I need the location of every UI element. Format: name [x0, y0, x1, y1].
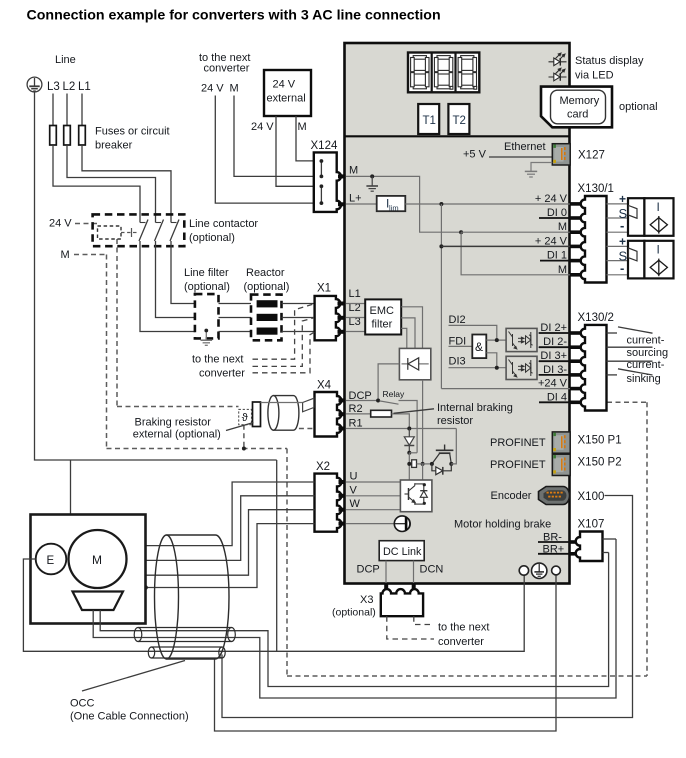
- wire dashed enclosure right drop: [286, 449, 288, 677]
- EMC filter box: [365, 299, 401, 334]
- X127 ethernet jack: [552, 144, 570, 165]
- X124 jumper pin 2: [320, 184, 324, 205]
- braking chopper IGBT: [432, 445, 454, 464]
- svg-text:R1: R1: [349, 418, 363, 430]
- contactor switch blade phase 1: [170, 220, 179, 242]
- svg-text:M: M: [61, 249, 70, 261]
- DC Link box: [379, 541, 424, 561]
- wire M external to X124: [296, 116, 314, 161]
- X150 P1 jack: [552, 432, 570, 453]
- pointer internal braking resistor: [394, 409, 435, 414]
- wire 24V external to X124: [276, 116, 314, 186]
- wire X107 to brake B: [603, 552, 609, 554]
- svg-text:Line: Line: [55, 54, 76, 66]
- svg-text:+: +: [619, 235, 626, 249]
- svg-text:V: V: [350, 484, 358, 496]
- svg-text:X2: X2: [316, 461, 330, 473]
- wire +24V rail drop: [440, 204, 442, 389]
- svg-text:X150 P1: X150 P1: [578, 435, 622, 447]
- braking enclosure dashed top: [117, 406, 239, 408]
- X3 pin stub DCP: [384, 585, 388, 595]
- wire DCP bus down: [408, 453, 410, 480]
- wire filter to reactor row2: [219, 317, 252, 319]
- wire shield row: [346, 523, 394, 525]
- svg-text:I: I: [657, 200, 660, 214]
- wire encoder E loop: [23, 559, 524, 651]
- svg-text:M: M: [298, 121, 307, 133]
- converter main block: [345, 43, 570, 584]
- wire X2 V to motor: [127, 496, 315, 561]
- wire X2 U to motor: [124, 482, 315, 546]
- svg-text:OCC: OCC: [70, 698, 95, 710]
- wire zener to DCP bus: [409, 452, 417, 454]
- braking resistor body cylinder: [268, 396, 299, 431]
- seven segment display assembly: [408, 53, 479, 93]
- svg-text:W: W: [350, 498, 361, 510]
- wire phase L3 contactor to filter: [140, 241, 195, 332]
- wire DC link DCP: [385, 561, 387, 583]
- X107 pin stubs: [571, 540, 577, 544]
- svg-text:X3: X3: [360, 594, 373, 606]
- svg-text:via LED: via LED: [575, 70, 614, 82]
- wire resistor to R1 rail: [392, 414, 410, 429]
- current limiter Ilim: [377, 196, 406, 211]
- svg-text:(optional): (optional): [244, 281, 290, 293]
- wire dashed M drop to braking enclosure: [106, 255, 108, 449]
- wire 24V to next converter: [215, 96, 313, 204]
- svg-text:R2: R2: [349, 403, 363, 415]
- junction DI2/AND: [495, 338, 499, 342]
- svg-text:X124: X124: [311, 140, 338, 152]
- wire brake lead B: [93, 539, 616, 698]
- svg-text:Memory: Memory: [560, 95, 600, 107]
- junction DI3/AND: [495, 366, 499, 370]
- X4 cable lug flag: [303, 398, 314, 412]
- X124 jumper pin 1: [320, 159, 324, 178]
- shield clamp circle 2: [552, 566, 561, 575]
- relay contact blade: [380, 401, 399, 404]
- X4 pin stub R2: [339, 412, 346, 416]
- DC link capacitor: [412, 460, 417, 468]
- contactor switch blade phase 3: [139, 220, 148, 242]
- wire W to inverter: [346, 509, 400, 511]
- svg-text:-: -: [620, 218, 624, 233]
- svg-text:X150 P2: X150 P2: [578, 457, 622, 469]
- wire U to inverter: [346, 481, 400, 483]
- svg-text:X1: X1: [317, 283, 331, 295]
- svg-text:DI2: DI2: [449, 314, 466, 326]
- svg-text:to the next: to the next: [192, 354, 243, 366]
- wire braking resistor to X4 DCP: [261, 402, 303, 404]
- cable tube 1 (brake pair): [134, 628, 235, 642]
- test key T2: [448, 104, 469, 134]
- wire M internal rail: [346, 176, 461, 232]
- AND gate: [472, 335, 486, 359]
- wire PE branch into motor box: [70, 460, 72, 515]
- DI 1 underline: [540, 260, 570, 262]
- svg-text:Connection example for convert: Connection example for converters with 3…: [27, 8, 441, 24]
- wire +24V to X130/2 pin: [441, 388, 570, 390]
- reactor winding bar 1: [257, 300, 278, 307]
- svg-text:EMC: EMC: [370, 305, 395, 317]
- X2 pin stub shield: [339, 522, 346, 526]
- connector X124: [314, 152, 341, 212]
- svg-text:Reactor: Reactor: [246, 267, 285, 279]
- X124 pin stub L+: [338, 202, 346, 206]
- svg-text:+ 24 V: + 24 V: [535, 193, 568, 205]
- svg-text:converter: converter: [438, 636, 484, 648]
- chopper zener diode: [404, 429, 414, 453]
- contactor coil K1: [98, 226, 122, 239]
- svg-text:resistor: resistor: [437, 415, 473, 427]
- svg-text:converter: converter: [204, 63, 250, 75]
- X1 pin stub L2: [338, 316, 346, 320]
- svg-text:Fuses or circuit: Fuses or circuit: [95, 126, 170, 138]
- svg-text:L1: L1: [78, 81, 91, 93]
- wire R1 rail: [346, 428, 456, 430]
- wire +24V rail row1: [405, 203, 570, 205]
- svg-text:U: U: [350, 471, 358, 483]
- svg-text:X130/1: X130/1: [578, 183, 614, 195]
- wire phase L2 upper: [66, 94, 68, 126]
- rectifier box: [399, 348, 430, 379]
- wire brake lead A: [100, 553, 608, 687]
- braking resistor connector block: [253, 402, 261, 427]
- DI 0 underline: [539, 217, 570, 219]
- junction cap left: [407, 462, 411, 466]
- wire DC link DCN: [413, 561, 415, 583]
- svg-text:+24 V: +24 V: [538, 378, 568, 390]
- shield clamp circle 1: [519, 566, 528, 575]
- wires X1 pins to EMC filter: [346, 304, 365, 332]
- svg-text:I: I: [657, 243, 660, 257]
- svg-text:(optional): (optional): [332, 607, 376, 619]
- wire +24V row4: [441, 245, 570, 247]
- svg-text:E: E: [47, 555, 55, 567]
- svg-text:Line filter: Line filter: [184, 267, 229, 279]
- svg-text:Ethernet: Ethernet: [504, 141, 546, 153]
- wire phase L2 staircase to contactor: [67, 145, 156, 223]
- svg-text:X130/2: X130/2: [578, 312, 614, 324]
- svg-text:L3: L3: [47, 81, 60, 93]
- wire PE from ground symbol down to y460: [35, 92, 277, 460]
- svg-text:L1: L1: [349, 288, 361, 300]
- connector X107: [576, 532, 603, 562]
- fuse F3: [50, 126, 57, 146]
- svg-text:T2: T2: [453, 115, 466, 127]
- svg-text:(optional): (optional): [189, 232, 235, 244]
- svg-text:L2: L2: [63, 81, 76, 93]
- wire phase L1 contactor to filter: [171, 241, 195, 304]
- svg-text:T1: T1: [423, 115, 436, 127]
- X124 pin stub M: [338, 174, 346, 178]
- svg-text:breaker: breaker: [95, 140, 133, 152]
- svg-text:DCN: DCN: [420, 564, 444, 576]
- svg-text:X4: X4: [317, 380, 332, 392]
- reactor winding bar 3: [257, 328, 278, 335]
- connector X130/1: [581, 196, 607, 283]
- wire chopper to R1: [451, 429, 456, 464]
- svg-text:&: &: [475, 340, 483, 354]
- X1 pin stub L1: [338, 302, 346, 306]
- sensor block 2 wires: [607, 246, 629, 274]
- fuse F2: [64, 126, 71, 146]
- svg-text:L+: L+: [349, 193, 362, 205]
- junction +24V rail: [439, 202, 443, 206]
- connector X1: [315, 296, 341, 340]
- wire DCN bus down to inverter: [422, 464, 424, 480]
- wire filter to reactor row3: [219, 331, 252, 333]
- svg-text:to the next: to the next: [438, 622, 489, 634]
- wire relay to chopper: [399, 401, 418, 453]
- pointer line braking resistor: [226, 423, 254, 431]
- wire phase L1 upper: [81, 94, 83, 126]
- svg-text:X100: X100: [578, 491, 605, 503]
- encoder connector X100: [539, 487, 570, 505]
- wire dashed DI4 chain bottom: [287, 675, 647, 677]
- svg-text:X107: X107: [578, 519, 605, 531]
- wire phase L3 upper: [52, 94, 54, 126]
- wire R2 pin: [346, 413, 371, 415]
- wire chopper rail: [417, 463, 432, 465]
- svg-text:ϑ: ϑ: [242, 412, 248, 424]
- chopper freewheel diode: [432, 464, 451, 475]
- svg-text:(optional): (optional): [184, 281, 230, 293]
- svg-text:24 V: 24 V: [273, 79, 296, 91]
- sensor block 2 (digital input DI1): [628, 241, 674, 279]
- junction DCP node: [376, 399, 380, 403]
- svg-text:DC Link: DC Link: [383, 546, 422, 558]
- inverter IGBT symbol: [405, 483, 428, 505]
- current transducer: [394, 516, 410, 532]
- optocoupler 2: [506, 356, 537, 379]
- wire X2 shield to motor PE node: [146, 524, 315, 588]
- svg-text:converter: converter: [199, 368, 245, 380]
- wire reactor to X1 row3: [282, 331, 315, 333]
- wire V to inverter: [346, 495, 400, 497]
- X130/2 pin stubs: [571, 331, 582, 404]
- wire L+ to Ilim: [346, 203, 377, 205]
- encoder E circle: [36, 544, 67, 575]
- X4 pin stub R1: [339, 427, 346, 431]
- line filter optional dashed box: [195, 294, 219, 338]
- cable tube 2 (encoder pair): [148, 647, 225, 658]
- contactor switch blade phase 2: [155, 220, 164, 242]
- line contactor optional dashed box: [93, 214, 185, 246]
- junction cap right: [421, 462, 425, 466]
- X130/1 pin stubs: [571, 202, 582, 277]
- X2 pin stub U: [339, 480, 346, 484]
- connector X3: [381, 589, 423, 616]
- reactor optional dashed box: [251, 295, 282, 341]
- svg-text:+ 24 V: + 24 V: [535, 235, 568, 247]
- svg-text:external (optional): external (optional): [133, 429, 221, 441]
- junction zener bottom: [407, 451, 411, 455]
- thermal contact box: [239, 409, 252, 424]
- memory card outer frame: [541, 87, 612, 128]
- wire dashed coil drop: [116, 239, 118, 407]
- svg-text:DCP: DCP: [357, 564, 380, 576]
- 24 V external supply box: [264, 70, 311, 116]
- wire M to next converter: [234, 96, 314, 177]
- motor housing box: [31, 515, 146, 624]
- motor M circle: [69, 530, 127, 588]
- wire dashed thermal to node: [243, 425, 245, 449]
- svg-text:Internal braking: Internal braking: [437, 402, 513, 414]
- svg-text:24 V: 24 V: [201, 83, 224, 95]
- X2 pin stub W: [339, 508, 346, 512]
- svg-text:sourcing: sourcing: [627, 347, 669, 359]
- wire dashed M feeder: [74, 254, 107, 256]
- connector X130/2: [581, 325, 607, 411]
- wire DI2: [449, 325, 497, 340]
- optocoupler 1: [506, 328, 537, 351]
- reactor winding bar 2: [257, 314, 278, 321]
- contactor aux contact: [121, 228, 139, 237]
- svg-text:FDI: FDI: [449, 336, 467, 348]
- wire DI3: [449, 367, 507, 369]
- svg-text:-: -: [620, 261, 624, 276]
- wire phase L1 staircase to contactor: [82, 145, 171, 223]
- PE terminal circle: [532, 563, 547, 578]
- rectifier diode symbol: [402, 358, 429, 370]
- wire AND out 1: [486, 339, 506, 341]
- current sinking switch: [607, 369, 653, 375]
- wire dashed next-converter 1: [253, 304, 315, 373]
- X2 pin stub V: [339, 494, 346, 498]
- wire DCP pin: [346, 400, 378, 402]
- wire opto1 to DI2+: [537, 332, 570, 334]
- svg-text:+5 V: +5 V: [463, 149, 487, 161]
- divider line: [345, 135, 570, 137]
- internal braking resistor: [371, 410, 392, 417]
- svg-text:M: M: [349, 165, 358, 177]
- junction motor PE node: [143, 585, 148, 590]
- internal ground tap: [370, 174, 374, 178]
- svg-text:M: M: [230, 83, 239, 95]
- svg-text:Encoder: Encoder: [491, 490, 532, 502]
- ground symbol (line PE): [27, 77, 42, 92]
- wire dashed braking resistor to X4 R1: [299, 428, 315, 430]
- connector X2: [315, 474, 342, 532]
- wire X107 to brake A: [603, 538, 617, 540]
- wire X2 W to motor: [123, 510, 315, 576]
- wire filter to reactor row1: [219, 303, 252, 305]
- wire DCN bus: [422, 380, 424, 464]
- sensor 1 S flag: [629, 206, 638, 219]
- braking enclosure dashed bottom: [107, 448, 288, 450]
- junction thermal node: [242, 447, 246, 451]
- junction R2/R1: [407, 427, 411, 431]
- X3 pin stub DCN: [412, 585, 416, 595]
- svg-text:(One Cable Connection): (One Cable Connection): [70, 711, 189, 723]
- current sourcing switch: [607, 327, 653, 361]
- sensor 2 S flag: [629, 248, 638, 261]
- wire opto2 to DI3+: [537, 360, 570, 362]
- wire phase L3 staircase to contactor: [53, 145, 140, 223]
- svg-text:Braking resistor: Braking resistor: [135, 417, 212, 429]
- svg-text:sinking: sinking: [627, 373, 661, 385]
- X150 P2 jack: [552, 454, 570, 475]
- svg-text:DI3: DI3: [449, 356, 466, 368]
- svg-text:+: +: [619, 192, 626, 206]
- pointer line OCC: [82, 661, 185, 692]
- junction +24V row4: [439, 244, 443, 248]
- junction M rail: [459, 230, 463, 234]
- inverter box: [400, 480, 432, 512]
- svg-text:Status display: Status display: [575, 55, 644, 67]
- wire shield clamp loop: [215, 575, 557, 731]
- wire opto2 to DI3-: [537, 374, 570, 376]
- svg-text:Relay: Relay: [383, 389, 405, 399]
- status LED symbol 1: [549, 53, 567, 66]
- svg-text:current-: current-: [627, 359, 665, 371]
- wire FDI to AND gate: [449, 345, 473, 347]
- svg-text:external: external: [267, 93, 306, 105]
- motor brake trapezoid: [73, 592, 124, 611]
- memory card inner: [551, 90, 606, 124]
- svg-text:M: M: [92, 553, 102, 567]
- wire reactor to X1 row2: [282, 317, 315, 319]
- svg-text:lim: lim: [389, 204, 399, 213]
- wire M rail to pin6: [461, 232, 570, 275]
- wires EMC filter to rectifier: [401, 307, 422, 349]
- X127 ground: [525, 163, 553, 178]
- wire dashed X3 DCP down: [387, 616, 434, 639]
- svg-text:24 V: 24 V: [49, 218, 72, 230]
- wire M row3 to pin: [461, 231, 570, 233]
- filter ground tap: [201, 330, 213, 345]
- wire PE drop at x276.7 to cable area: [276, 460, 278, 651]
- svg-text:24 V: 24 V: [251, 121, 274, 133]
- status LED symbol 2: [549, 68, 567, 81]
- sensor block 1 wires: [607, 204, 629, 232]
- OCC cable shield cylinder: [155, 535, 230, 659]
- svg-text:current-: current-: [627, 335, 665, 347]
- connector X4: [315, 392, 342, 437]
- svg-text:Motor holding brake: Motor holding brake: [454, 519, 551, 531]
- wire dashed DI4 chain riser: [646, 402, 648, 676]
- svg-text:filter: filter: [372, 319, 393, 331]
- svg-text:PROFINET: PROFINET: [490, 459, 546, 471]
- svg-text:M: M: [558, 264, 567, 276]
- fuse F1: [79, 126, 86, 146]
- svg-text:PROFINET: PROFINET: [490, 437, 546, 449]
- svg-text:M: M: [558, 221, 567, 233]
- X4 pin stub DCP: [339, 398, 346, 402]
- svg-text:Line contactor: Line contactor: [189, 218, 258, 230]
- wire encoder cable to X100: [222, 496, 633, 718]
- wire opto1 to DI2-: [537, 346, 570, 348]
- wire rectifier DCP tap: [378, 364, 399, 401]
- wire AND out 2: [486, 353, 497, 368]
- sensor block 1 (digital input DI0): [628, 198, 674, 236]
- wire +5V to X127: [489, 156, 552, 158]
- seven segment digits: [411, 56, 477, 90]
- wire phase L2 contactor to filter: [156, 241, 195, 318]
- svg-text:optional: optional: [619, 101, 658, 113]
- wire dashed DI4 stub: [607, 401, 647, 403]
- X1 pin stub L3: [338, 330, 346, 334]
- wire reactor to X1 row1: [282, 303, 315, 305]
- svg-text:card: card: [567, 109, 588, 121]
- svg-text:X127: X127: [578, 150, 605, 162]
- wire dashed 24V to coil: [75, 223, 97, 225]
- test key T1: [418, 104, 439, 134]
